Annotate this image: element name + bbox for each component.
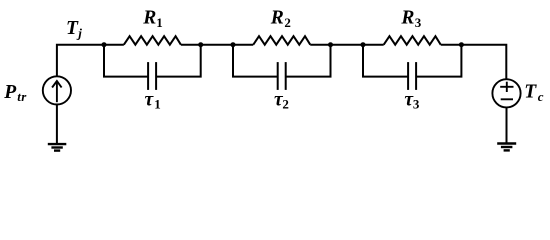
svg-text:T: T bbox=[66, 18, 79, 39]
node junction dot 3 bbox=[231, 42, 236, 47]
voltage source T_c bbox=[492, 79, 520, 107]
svg-text:P: P bbox=[3, 82, 17, 103]
resistor R2 bbox=[253, 36, 310, 45]
wire cell2 right drop bbox=[286, 45, 331, 77]
svg-text:τ: τ bbox=[145, 89, 155, 110]
svg-text:3: 3 bbox=[415, 15, 422, 30]
wire cell3 left drop bbox=[363, 45, 408, 77]
capacitor tau1 bbox=[148, 62, 156, 90]
label T_j bbox=[66, 18, 82, 40]
svg-text:R: R bbox=[142, 8, 156, 29]
label R3 bbox=[400, 8, 421, 30]
node junction dot 2 bbox=[198, 42, 203, 47]
svg-text:3: 3 bbox=[413, 97, 420, 112]
label R2 bbox=[270, 8, 291, 30]
label R1 bbox=[142, 8, 162, 30]
capacitor tau3 bbox=[408, 62, 416, 90]
ground (left) bbox=[48, 144, 67, 151]
node junction dot 4 bbox=[328, 42, 333, 47]
wire below voltage source bbox=[506, 107, 508, 143]
wire cell2 left drop bbox=[233, 45, 278, 77]
wire cell1 right drop bbox=[156, 45, 201, 77]
svg-text:1: 1 bbox=[154, 97, 161, 112]
svg-text:tr: tr bbox=[17, 89, 27, 104]
svg-text:2: 2 bbox=[284, 15, 291, 30]
label tau1 bbox=[145, 89, 161, 111]
current source P_tr bbox=[43, 76, 71, 104]
wire R3 to Tc corner bbox=[441, 45, 507, 79]
wire between R1 and R2 bbox=[181, 44, 253, 46]
node junction dot 6 bbox=[459, 42, 464, 47]
label tau3 bbox=[404, 89, 420, 111]
wire top rail bbox=[57, 45, 124, 77]
resistor R1 bbox=[124, 36, 181, 45]
svg-text:T: T bbox=[524, 82, 537, 103]
resistor R3 bbox=[384, 36, 441, 45]
wire cell3 right drop bbox=[416, 45, 461, 77]
svg-text:R: R bbox=[270, 8, 284, 29]
wire between R2 and R3 bbox=[310, 44, 383, 46]
ground (right) bbox=[497, 144, 516, 151]
label tau2 bbox=[274, 89, 289, 111]
label T_c bbox=[524, 82, 544, 104]
svg-text:1: 1 bbox=[156, 15, 163, 30]
wire below current source bbox=[56, 105, 58, 145]
svg-text:c: c bbox=[538, 89, 544, 104]
node junction dot 5 bbox=[361, 42, 366, 47]
capacitor tau2 bbox=[278, 62, 286, 90]
wire cell1 left drop bbox=[104, 45, 148, 77]
node junction dot 1 bbox=[102, 42, 107, 47]
label P_tr bbox=[3, 82, 27, 104]
svg-text:2: 2 bbox=[282, 97, 289, 112]
svg-text:R: R bbox=[400, 8, 414, 29]
